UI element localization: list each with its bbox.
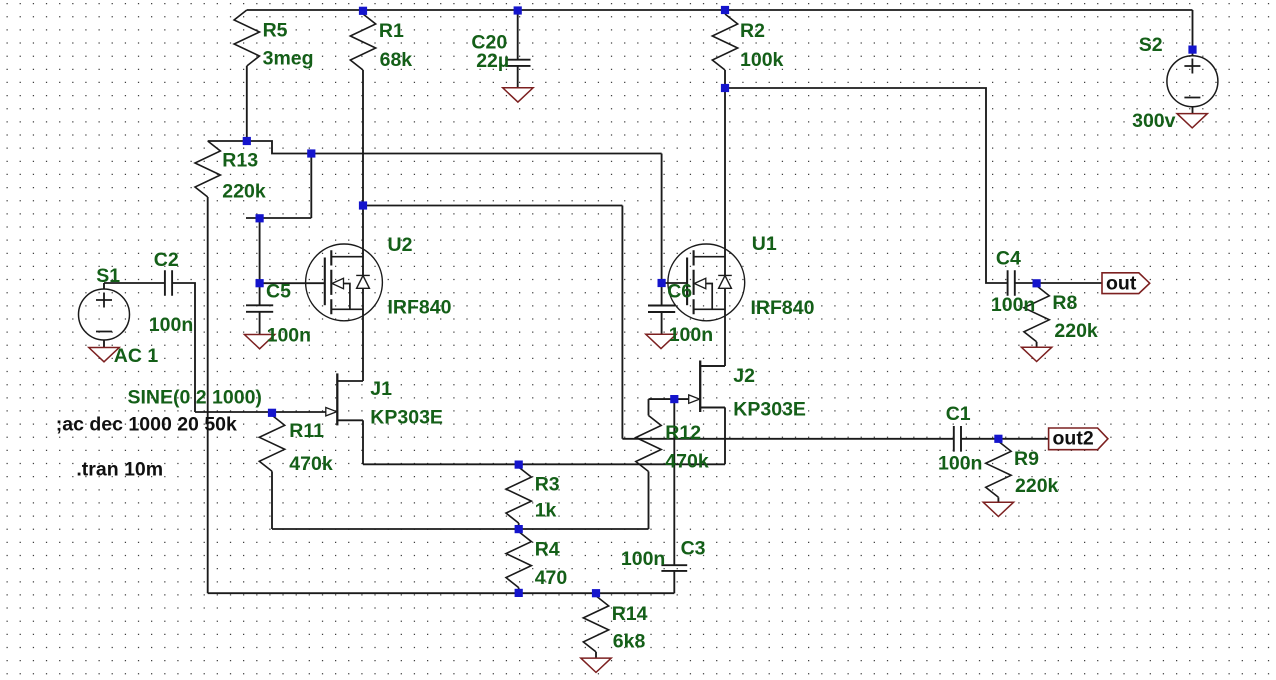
wire U1 gate lead	[662, 282, 687, 284]
label C4	[996, 247, 1021, 269]
wire C4 to junction	[1015, 282, 1037, 284]
wire sources rail	[363, 463, 725, 465]
svg-text:out2: out2	[1053, 428, 1094, 450]
wire C6 column	[661, 154, 663, 306]
capacitor C6	[648, 306, 675, 313]
wire J2 gate row	[649, 399, 689, 415]
label S2	[1139, 34, 1163, 56]
junction C4 R8 out	[1033, 279, 1041, 287]
svg-text:100n: 100n	[149, 314, 193, 336]
value R13	[222, 180, 266, 202]
resistor R2	[712, 14, 737, 88]
value S2	[1132, 110, 1176, 132]
value R3	[535, 499, 557, 521]
svg-text:C6: C6	[667, 280, 692, 302]
label S1 SINE	[128, 386, 262, 408]
wire C5 drop	[259, 218, 261, 305]
svg-text:470k: 470k	[289, 453, 333, 475]
wire out2 row	[622, 438, 953, 440]
jfet J1	[326, 373, 363, 425]
junction R5-R13	[243, 137, 251, 145]
value C3	[621, 548, 665, 570]
label R14	[612, 603, 648, 625]
label U1	[752, 233, 777, 255]
capacitor C4	[1008, 270, 1015, 296]
junction R14 top	[592, 589, 600, 597]
value R14	[613, 630, 646, 652]
value C1	[938, 452, 982, 474]
junction R4 bottom	[515, 589, 523, 597]
jfet J2	[689, 361, 725, 413]
svg-text:220k: 220k	[1054, 320, 1098, 342]
label R4	[535, 538, 560, 560]
svg-text:68k: 68k	[380, 49, 413, 71]
value C4	[991, 294, 1035, 316]
wire C5 bottom lead	[259, 312, 261, 335]
svg-text:R8: R8	[1052, 292, 1077, 314]
label C2	[154, 249, 179, 271]
svg-text:SINE(0 2 1000): SINE(0 2 1000)	[128, 386, 262, 408]
svg-text:R11: R11	[289, 420, 324, 442]
svg-text:1k: 1k	[535, 499, 557, 521]
label J2	[733, 365, 755, 387]
wire bottom rail	[208, 592, 675, 594]
label R1	[379, 20, 404, 42]
mosfet U2	[306, 244, 383, 321]
value C2	[149, 314, 193, 336]
value C5	[267, 325, 311, 347]
svg-text:470k: 470k	[665, 451, 709, 473]
voltage source S2	[1167, 56, 1218, 114]
junction R3 top	[515, 461, 523, 469]
resistor R4	[506, 532, 531, 594]
wire J1 gate row	[195, 411, 326, 413]
svg-text:220k: 220k	[1015, 475, 1059, 497]
svg-text:.tran 10m: .tran 10m	[76, 459, 163, 481]
capacitor C2	[165, 270, 172, 296]
wire S1 to C2	[104, 282, 165, 284]
wire C1 to junction to out2	[961, 438, 1049, 440]
value R5	[263, 48, 314, 70]
junction C1 R9 out2	[994, 435, 1002, 443]
label R11	[289, 420, 324, 442]
value R11	[289, 453, 333, 475]
svg-text:R2: R2	[740, 20, 765, 42]
value J2	[733, 398, 806, 420]
ground under C6	[646, 334, 676, 348]
svg-text:470: 470	[535, 567, 568, 589]
junction J1 gate R11	[268, 409, 276, 417]
svg-text:300v: 300v	[1132, 110, 1176, 132]
resistor R11	[259, 415, 284, 529]
resistor R8	[1024, 286, 1049, 347]
label R5	[263, 20, 288, 42]
svg-text:100n: 100n	[669, 324, 713, 346]
svg-text:C3: C3	[681, 537, 706, 559]
svg-text:KP303E: KP303E	[733, 398, 806, 420]
directive tran	[76, 459, 163, 481]
svg-text:R1: R1	[379, 20, 404, 42]
value S1	[114, 345, 159, 367]
svg-text:100n: 100n	[267, 325, 311, 347]
resistor R9	[986, 441, 1011, 502]
svg-text:U2: U2	[388, 234, 413, 256]
ground under C20	[503, 88, 533, 102]
resistor R5	[234, 10, 259, 141]
value U2	[388, 297, 452, 319]
svg-text:S1: S1	[96, 265, 120, 287]
junction J2 gate C3	[670, 395, 678, 403]
wire jog R13 junction to row	[247, 141, 662, 154]
junction row153 x311	[307, 149, 315, 157]
mosfet U1	[668, 244, 745, 321]
svg-text:J2: J2	[733, 365, 755, 387]
label J1	[370, 378, 392, 400]
wire J2 drain lead	[700, 365, 725, 367]
svg-text:out: out	[1106, 272, 1137, 294]
svg-text:100n: 100n	[621, 548, 665, 570]
wire U1 drain column	[724, 88, 726, 366]
svg-text:R12: R12	[665, 422, 701, 444]
junction R2 top	[721, 6, 729, 14]
wire C2 right elbow	[172, 283, 195, 412]
resistor R13	[195, 141, 220, 593]
label C5	[266, 280, 291, 302]
capacitor C20	[505, 60, 530, 66]
capacitor C5	[246, 305, 273, 312]
ground under R14	[581, 658, 611, 672]
label R13	[222, 149, 258, 171]
value R2	[740, 49, 784, 71]
svg-text:R3: R3	[535, 473, 560, 495]
svg-text:IRF840: IRF840	[751, 297, 815, 319]
label S1	[96, 265, 120, 287]
svg-text:C2: C2	[154, 249, 179, 271]
junction R3 bottom	[515, 525, 523, 533]
svg-text:J1: J1	[370, 378, 392, 400]
wire top supply rail	[247, 9, 1193, 11]
label R2	[740, 20, 765, 42]
wire row205 to right column	[363, 206, 622, 439]
port out	[1102, 272, 1150, 294]
wire U2 drain column	[362, 206, 364, 382]
wire C3 column	[673, 399, 675, 593]
svg-text:R5: R5	[263, 20, 288, 42]
wire S2 top drop	[1192, 10, 1194, 56]
wire C6 bottom lead	[661, 312, 663, 334]
svg-text:R14: R14	[612, 603, 648, 625]
wire branch x311 down	[310, 154, 312, 219]
svg-text:;ac dec 1000 20 50k: ;ac dec 1000 20 50k	[56, 414, 237, 436]
label R12	[665, 422, 701, 444]
value R12	[665, 451, 709, 473]
junction U1 gate C6	[658, 279, 666, 287]
label C3	[681, 537, 706, 559]
svg-text:C5: C5	[266, 280, 291, 302]
label R3	[535, 473, 560, 495]
ground under R9	[983, 502, 1013, 516]
junction U2 gate C5	[256, 279, 264, 287]
wire junction to out port	[1037, 282, 1102, 284]
ground under R8	[1021, 347, 1051, 361]
junction C20 top	[514, 6, 522, 14]
wire R11 to R12 bottom row	[272, 528, 649, 530]
directive ac	[56, 414, 237, 436]
ground under S1	[89, 348, 119, 362]
wire C20 leads	[517, 11, 519, 88]
svg-text:100n: 100n	[938, 452, 982, 474]
voltage source S1	[79, 283, 130, 348]
value R1	[380, 49, 413, 71]
capacitor C1	[954, 426, 961, 452]
svg-text:AC 1: AC 1	[114, 345, 159, 367]
value R9	[1015, 475, 1059, 497]
value R8	[1054, 320, 1098, 342]
svg-text:100k: 100k	[740, 49, 784, 71]
svg-text:R9: R9	[1014, 448, 1039, 470]
svg-text:KP303E: KP303E	[370, 407, 443, 429]
svg-text:6k8: 6k8	[613, 630, 646, 652]
label U2	[388, 234, 413, 256]
junction R2 bottom	[721, 84, 729, 92]
svg-text:100n: 100n	[991, 294, 1035, 316]
svg-text:S2: S2	[1139, 34, 1163, 56]
svg-text:R13: R13	[222, 149, 258, 171]
resistor R3	[506, 467, 531, 529]
svg-text:22µ: 22µ	[476, 50, 509, 72]
label C20	[471, 32, 507, 54]
capacitor C3	[661, 565, 687, 571]
wire stub row218	[246, 217, 311, 219]
svg-text:3meg: 3meg	[263, 48, 314, 70]
wire J2 source drop	[700, 407, 725, 464]
label R9	[1014, 448, 1039, 470]
wire R2 to C4	[725, 88, 1008, 283]
svg-text:C4: C4	[996, 247, 1021, 269]
port out2	[1049, 428, 1108, 450]
value J1	[370, 407, 443, 429]
junction U2 drain row205	[359, 201, 367, 209]
resistor R1	[350, 14, 375, 206]
junction S2 top	[1188, 46, 1196, 54]
wire J1 source leads	[362, 420, 364, 464]
value R4	[535, 567, 568, 589]
svg-text:C1: C1	[946, 403, 971, 425]
svg-text:U1: U1	[752, 233, 777, 255]
value C20	[476, 50, 509, 72]
svg-text:IRF840: IRF840	[388, 297, 452, 319]
resistor R12	[636, 416, 661, 530]
label C1	[946, 403, 971, 425]
ground under S2	[1177, 114, 1207, 128]
junction R1 top	[359, 7, 367, 15]
resistor R14	[583, 596, 608, 658]
svg-text:R4: R4	[535, 538, 560, 560]
wire U2 gate lead	[260, 282, 325, 284]
label R8	[1052, 292, 1077, 314]
ground under C5	[244, 335, 274, 349]
junction stub x259	[256, 214, 264, 222]
value C6	[669, 324, 713, 346]
value U1	[751, 297, 815, 319]
label C6	[667, 280, 692, 302]
wire R13 top lead	[208, 140, 247, 142]
svg-text:220k: 220k	[222, 180, 266, 202]
